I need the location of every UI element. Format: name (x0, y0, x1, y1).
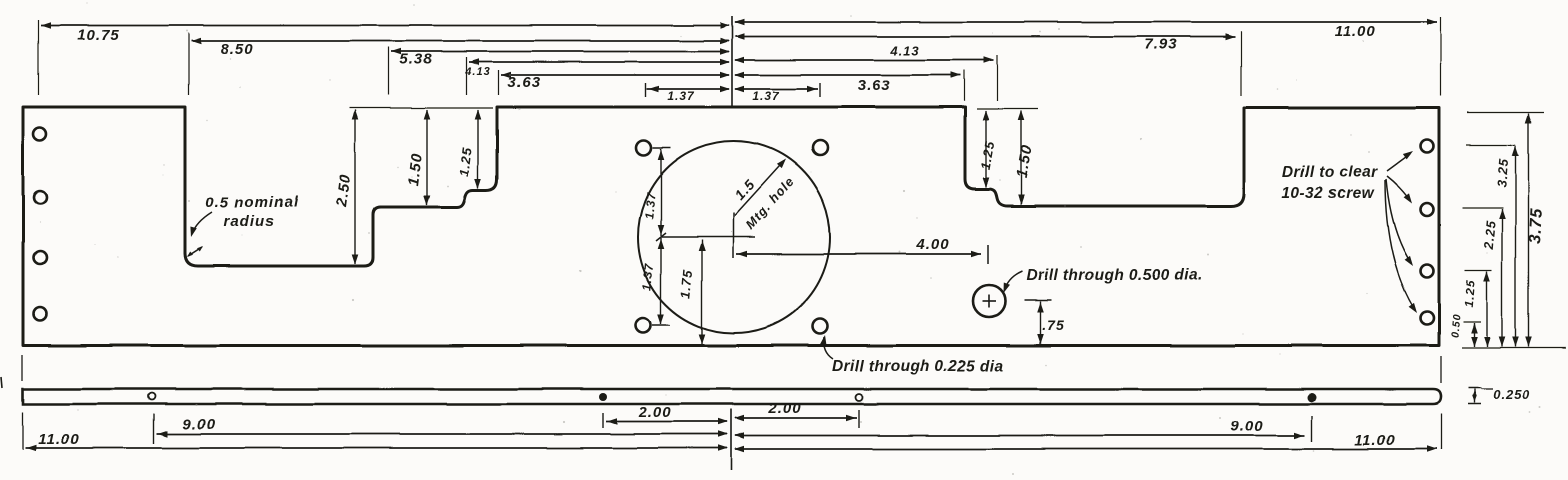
svg-text:4.13: 4.13 (889, 43, 919, 58)
horizontal reference to circle center (656, 233, 755, 241)
svg-text:0.250: 0.250 (1493, 387, 1531, 402)
svg-text:4.00: 4.00 (915, 236, 949, 253)
right tab hole 3 (1421, 265, 1434, 278)
svg-text:Drill to clear: Drill to clear (1282, 164, 1378, 181)
tick for 9.00 left (153, 414, 155, 444)
reference line across right notch (977, 108, 1038, 110)
dim 1.37 (top right of center) (734, 83, 820, 103)
0.500 dia hole (973, 285, 1005, 317)
left tab hole 3 (34, 252, 47, 265)
dim 2.00 (bottom left) (606, 404, 728, 425)
left tab hole 1 (34, 128, 47, 141)
1.5 radius mounting hole circle (638, 141, 830, 333)
dim 4.13 (top right) (734, 43, 998, 101)
tick at lower hole (652, 324, 670, 326)
tick at upper hole (653, 147, 671, 149)
svg-text:radius: radius (223, 213, 274, 230)
stray mark left margin (2, 377, 3, 388)
right reference line top edge level (1467, 112, 1544, 114)
right reference line 2.25 hole level (1462, 207, 1503, 209)
annotation Drill through 0.225 dia (820, 335, 1004, 375)
dim 11.00 (top right) (734, 17, 1441, 96)
extension line right edge (bottom dims) (1440, 414, 1442, 450)
edge view hole left 2.00 (599, 393, 607, 401)
0.225 dia hole 3 (636, 318, 651, 333)
extension line right edge (views) (1440, 356, 1442, 383)
dim 11.00 (bottom left) (25, 431, 728, 451)
dim 1.75 (center to bottom edge) (678, 240, 706, 344)
svg-text:4.13: 4.13 (464, 66, 490, 78)
dim .75 (hole to bottom edge) (1024, 300, 1064, 344)
dim 2.00 (bottom right) (734, 400, 857, 421)
top center extension line (731, 16, 733, 106)
dim 3.75 (right side) (1525, 114, 1546, 347)
svg-text:9.00: 9.00 (1230, 418, 1263, 435)
edge view hole right 9.00 (1308, 393, 1317, 402)
right reference line bottom edge level (1462, 347, 1566, 349)
edge view hole right 2.00 (856, 394, 863, 401)
extension line left edge (views) (22, 355, 24, 381)
dim 1.50 (right notch depth) (1013, 111, 1036, 205)
tick for 2.00 left (602, 413, 604, 428)
dim 3.63 (top right) (734, 70, 965, 101)
svg-text:10-32 screw: 10-32 screw (1282, 185, 1375, 202)
reference line across left notch (349, 107, 493, 109)
panel front view outline (23, 107, 1439, 346)
svg-text:1.50: 1.50 (1013, 143, 1036, 179)
svg-text:7.93: 7.93 (1144, 36, 1177, 53)
dim 1.37 (upper hole to centerline) (642, 149, 664, 236)
svg-text:1.75: 1.75 (678, 268, 695, 299)
dim 1.37 (top left of center) (646, 83, 730, 103)
svg-text:8.50: 8.50 (220, 41, 253, 58)
svg-text:1.37: 1.37 (667, 89, 695, 103)
dim 0.50 (right side) (1449, 313, 1477, 346)
svg-text:3.75: 3.75 (1526, 207, 1546, 244)
left tab hole 2 (34, 191, 47, 204)
svg-text:11.00: 11.00 (1354, 432, 1395, 449)
annotation Drill to clear 10-32 screw (1282, 151, 1417, 313)
svg-text:1.37: 1.37 (640, 262, 656, 291)
svg-text:Drill through 0.500 dia.: Drill through 0.500 dia. (1026, 267, 1203, 284)
svg-text:1.25: 1.25 (456, 146, 474, 177)
svg-text:0.5 nominal: 0.5 nominal (205, 194, 299, 211)
dim 10.75 (top left) (39, 20, 731, 95)
right reference line 1.25 hole level (1465, 270, 1492, 272)
dim 0.250 thickness (1468, 387, 1531, 404)
svg-text:3.63: 3.63 (857, 77, 890, 94)
right reference line 0.50 hole level (1463, 321, 1481, 323)
svg-text:2.25: 2.25 (1481, 219, 1499, 251)
dim 9.00 (bottom left) (157, 416, 728, 437)
dim 11.00 (bottom right) (734, 432, 1437, 452)
right tab hole 2 (1421, 203, 1434, 216)
svg-text:1.37: 1.37 (752, 89, 780, 103)
dim 2.25 (right side) (1481, 209, 1506, 347)
tick for 9.00 right (1311, 416, 1313, 442)
dim 2.50 (left notch depth) (333, 110, 358, 265)
dim 3.63 (top left) (499, 70, 731, 95)
dim 1.25 (right side) (1462, 272, 1490, 347)
dim 8.50 (top left) (189, 33, 731, 95)
svg-text:11.00: 11.00 (1334, 23, 1375, 40)
annotation 0.5 nominal radius (187, 194, 299, 257)
dim 3.25 (right side) (1494, 146, 1519, 347)
svg-text:11.00: 11.00 (38, 431, 79, 448)
0.225 dia hole 4 (813, 319, 828, 334)
dim 4.00 (center to 0.500 hole) (736, 236, 988, 264)
svg-text:.75: .75 (1042, 317, 1064, 333)
svg-text:1.25: 1.25 (1462, 279, 1478, 307)
svg-text:Drill through 0.225 dia: Drill through 0.225 dia (832, 358, 1004, 375)
dim 1.50 (left notch shelf) (405, 110, 430, 206)
svg-text:9.00: 9.00 (182, 416, 215, 433)
svg-text:1.37: 1.37 (642, 191, 658, 220)
dim 9.00 (bottom right) (734, 418, 1305, 439)
svg-text:5.38: 5.38 (399, 51, 432, 68)
dim 4.13 (top left) (464, 57, 730, 95)
svg-text:3.63: 3.63 (507, 74, 540, 91)
svg-text:2.50: 2.50 (333, 173, 354, 209)
bottom center extension line (730, 409, 732, 470)
svg-text:1.5: 1.5 (731, 176, 758, 203)
edge view hole left 9.00 (149, 393, 156, 400)
circle center vertical mark (732, 213, 734, 258)
svg-text:1.50: 1.50 (405, 152, 426, 187)
svg-text:1.25: 1.25 (978, 139, 998, 170)
extension line left edge (bottom dims) (22, 412, 24, 450)
right reference line 3.25 hole level (1466, 144, 1516, 146)
panel edge view bar (23, 389, 1441, 404)
svg-text:2.00: 2.00 (637, 404, 671, 421)
tick for 2.00 right (858, 410, 860, 428)
dim 1.25 (left notch step) (456, 110, 481, 189)
0.225 dia hole 1 (637, 141, 652, 156)
right tab hole 1 (1421, 140, 1434, 153)
right tab hole 4 (1421, 312, 1434, 325)
svg-text:3.25: 3.25 (1494, 157, 1511, 188)
dim 7.93 (top right) (734, 31, 1241, 96)
svg-text:2.00: 2.00 (767, 400, 801, 417)
svg-text:0.50: 0.50 (1449, 313, 1463, 338)
left tab hole 4 (34, 308, 47, 321)
dim 1.37 (centerline to lower hole) (640, 238, 664, 324)
dim 5.38 (top left) (389, 47, 731, 95)
dim 1.25 (right notch step) (978, 111, 998, 188)
0.225 dia hole 2 (813, 141, 828, 156)
annotation Drill through 0.500 dia (1003, 267, 1203, 293)
radius leader 1.5 Mtg hole (731, 159, 798, 233)
svg-text:10.75: 10.75 (77, 27, 120, 44)
